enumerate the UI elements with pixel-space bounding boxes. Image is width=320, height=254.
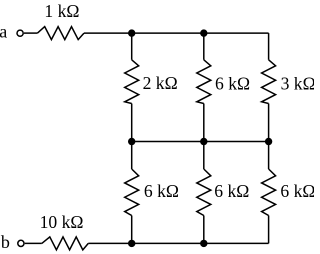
svg-text:a: a xyxy=(0,22,7,42)
svg-text:2 kΩ: 2 kΩ xyxy=(143,73,178,93)
svg-text:3 kΩ: 3 kΩ xyxy=(281,73,314,93)
svg-text:10 kΩ: 10 kΩ xyxy=(40,212,84,232)
svg-text:6 kΩ: 6 kΩ xyxy=(280,181,314,201)
svg-text:b: b xyxy=(1,232,10,252)
svg-text:1 kΩ: 1 kΩ xyxy=(44,1,79,21)
svg-text:6 kΩ: 6 kΩ xyxy=(214,181,249,201)
svg-text:6 kΩ: 6 kΩ xyxy=(144,181,179,201)
svg-text:6 kΩ: 6 kΩ xyxy=(215,73,250,93)
